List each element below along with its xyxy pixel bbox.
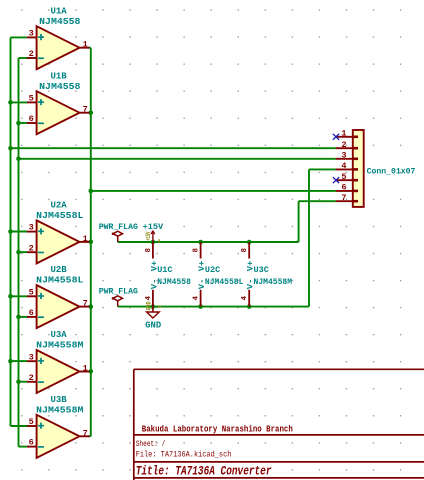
wire U3A pin3 stub bbox=[11, 360, 28, 362]
junction V1/U2A.3 bbox=[8, 229, 13, 234]
power symbol +15V bbox=[145, 231, 155, 242]
pin name tick near GND bbox=[159, 305, 161, 307]
svg-text:7: 7 bbox=[83, 299, 88, 309]
power flag PWR_FLAG on +15V rail bbox=[112, 231, 123, 242]
wire U2A pin2 stub bbox=[19, 251, 28, 253]
junction V3/U3A.1 bbox=[89, 369, 94, 374]
svg-text:4: 4 bbox=[341, 161, 346, 171]
op-amp power unit U2C bbox=[193, 242, 208, 307]
svg-text:6: 6 bbox=[341, 183, 346, 193]
svg-text:Conn_01x07: Conn_01x07 bbox=[367, 166, 416, 176]
svg-text:PWR_FLAG: PWR_FLAG bbox=[99, 222, 138, 232]
wire connector pin4 stub bbox=[309, 168, 336, 170]
wire U1B pin6 stub bbox=[19, 122, 28, 124]
junction V1/U2B.5 bbox=[8, 294, 13, 299]
svg-text:8: 8 bbox=[145, 248, 153, 252]
svg-text:2: 2 bbox=[29, 243, 34, 253]
wire U3B pin6 stub bbox=[19, 446, 28, 448]
op-amp U2B bbox=[27, 285, 89, 328]
connector pin 4 bbox=[336, 168, 353, 170]
op-amp U2A bbox=[27, 220, 89, 263]
wire U3A pin1 stub bbox=[89, 370, 91, 372]
svg-text:File: TA7136A.kicad_sch: File: TA7136A.kicad_sch bbox=[136, 451, 232, 460]
svg-text:NJM4558L: NJM4558L bbox=[36, 211, 83, 221]
svg-text:6: 6 bbox=[29, 308, 34, 318]
svg-text:U2C: U2C bbox=[205, 265, 220, 275]
junction +15V rail/U2C.8 bbox=[198, 240, 203, 245]
power symbol GND bbox=[146, 301, 160, 318]
svg-text:2: 2 bbox=[29, 373, 34, 383]
svg-text:7: 7 bbox=[341, 193, 346, 203]
svg-text:1: 1 bbox=[83, 40, 88, 50]
wire U1B pin5 stub bbox=[11, 101, 28, 103]
connector Conn_01x07 bbox=[353, 130, 364, 207]
svg-text:5: 5 bbox=[341, 172, 346, 182]
title block frame bbox=[134, 368, 424, 370]
svg-text:U3C: U3C bbox=[254, 265, 269, 275]
op-amp U3A bbox=[27, 350, 89, 393]
wire connector pin7 stub bbox=[299, 200, 336, 202]
connector pin 6 bbox=[336, 190, 353, 192]
connector pin 1 bbox=[336, 136, 353, 138]
wire U2B pin5 stub bbox=[11, 295, 28, 297]
svg-text:Sheet: /: Sheet: / bbox=[136, 440, 166, 449]
wire +15V rail bbox=[118, 241, 299, 243]
connector pin 5 bbox=[336, 179, 353, 181]
junction V2/H2 bbox=[16, 157, 21, 162]
op-amp U1B bbox=[27, 91, 89, 134]
wire H3 to connector pin6 bbox=[91, 190, 336, 192]
svg-text:U1A: U1A bbox=[51, 6, 68, 16]
svg-text:+15V: +15V bbox=[145, 232, 152, 241]
svg-text:PWR_FLAG: PWR_FLAG bbox=[99, 287, 138, 297]
svg-text:7: 7 bbox=[83, 105, 88, 115]
connector pin 3 bbox=[336, 158, 353, 160]
wire H2 to connector pin3 bbox=[19, 158, 336, 160]
wire H1 to connector pin2 bbox=[11, 147, 336, 149]
junction V3/U2B.7 bbox=[89, 304, 94, 309]
wire riser to connector pin7 bbox=[298, 201, 300, 242]
junction V2/U1B.6 bbox=[16, 121, 21, 126]
svg-text:U3A: U3A bbox=[51, 330, 68, 340]
wire V1 non-inverting bus x=10.5 bbox=[10, 37, 12, 426]
svg-text:Bakuda Laboratory Narashino Br: Bakuda Laboratory Narashino Branch bbox=[142, 424, 293, 434]
svg-text:NJM4558M: NJM4558M bbox=[36, 405, 83, 415]
svg-text:NJM4558: NJM4558 bbox=[39, 17, 80, 27]
svg-text:Title: TA7136A Converter: Title: TA7136A Converter bbox=[136, 465, 272, 479]
svg-text:4: 4 bbox=[145, 295, 153, 300]
wire U3B pin7 stub bbox=[89, 435, 91, 437]
no-connect X pin1 bbox=[333, 134, 339, 140]
junction V3/U2A.1 bbox=[89, 240, 94, 245]
connector pin 7 bbox=[336, 200, 353, 202]
wire U1A pin3 stub bbox=[11, 36, 28, 38]
op-amp U3B bbox=[27, 415, 89, 458]
wire V2 inverting bus x=18.5 bbox=[18, 58, 20, 447]
junction V1/U1B.5 bbox=[8, 100, 13, 105]
junction V2/U2A.2 bbox=[16, 250, 21, 255]
svg-text:1: 1 bbox=[83, 234, 88, 244]
wire GND rail bbox=[118, 306, 309, 308]
op-amp U1A bbox=[27, 26, 89, 69]
junction GND rail/U1C.4 bbox=[151, 304, 156, 309]
junction +15V rail/U1C.8 bbox=[151, 240, 156, 245]
svg-text:U2A: U2A bbox=[51, 201, 68, 211]
svg-text:+15V: +15V bbox=[143, 222, 164, 232]
wire U2A pin3 stub bbox=[11, 231, 28, 233]
svg-text:U3B: U3B bbox=[51, 395, 68, 405]
junction V1/H1 bbox=[8, 146, 13, 151]
junction V2/U2B.6 bbox=[16, 315, 21, 320]
power flag PWR_FLAG on GND rail bbox=[112, 296, 123, 307]
wire U2B pin7 stub bbox=[89, 306, 91, 308]
op-amp power unit U3C bbox=[241, 242, 256, 307]
svg-text:6: 6 bbox=[29, 114, 34, 124]
wire U1B pin7 stub bbox=[89, 112, 91, 114]
junction GND rail/U3C.4 bbox=[247, 304, 252, 309]
wire riser to connector pin4 bbox=[308, 169, 310, 306]
svg-text:1: 1 bbox=[83, 364, 88, 374]
no-connect X pin5 bbox=[333, 177, 339, 183]
svg-text:NJM4558M: NJM4558M bbox=[254, 277, 293, 287]
svg-text:4: 4 bbox=[193, 295, 201, 300]
svg-text:NJM4558L: NJM4558L bbox=[205, 277, 244, 287]
op-amp power unit U1C bbox=[145, 242, 160, 307]
svg-text:8: 8 bbox=[193, 248, 201, 252]
svg-text:3: 3 bbox=[29, 223, 34, 233]
svg-text:NJM4558L: NJM4558L bbox=[36, 276, 83, 286]
wire U2A pin1 stub bbox=[89, 241, 91, 243]
svg-text:4: 4 bbox=[241, 295, 249, 300]
svg-text:U1C: U1C bbox=[157, 265, 172, 275]
pin name tick near U1C pin8 bbox=[158, 239, 160, 243]
svg-text:U1B: U1B bbox=[51, 71, 68, 81]
svg-text:NJM4558: NJM4558 bbox=[157, 277, 191, 287]
svg-text:2: 2 bbox=[341, 140, 346, 150]
svg-text:NJM4558M: NJM4558M bbox=[36, 341, 83, 351]
wire U1A pin1 stub bbox=[89, 47, 91, 49]
wire U2B pin6 stub bbox=[19, 316, 28, 318]
svg-text:NJM4558: NJM4558 bbox=[39, 82, 80, 92]
junction V2/U3A.2 bbox=[16, 379, 21, 384]
svg-text:5: 5 bbox=[29, 417, 34, 427]
svg-text:3: 3 bbox=[341, 151, 346, 161]
junction V3/H3 bbox=[89, 189, 94, 194]
svg-text:5: 5 bbox=[29, 287, 34, 297]
svg-text:3: 3 bbox=[29, 352, 34, 362]
wire U3B pin5 stub bbox=[11, 425, 28, 427]
svg-text:7: 7 bbox=[83, 428, 88, 438]
svg-text:1: 1 bbox=[341, 129, 346, 139]
junction V3/U1B.7 bbox=[89, 110, 94, 115]
junction V1/U3A.3 bbox=[8, 359, 13, 364]
junction +15V rail/U3C.8 bbox=[247, 240, 252, 245]
wire U3A pin2 stub bbox=[19, 381, 28, 383]
svg-text:U2B: U2B bbox=[51, 265, 68, 275]
wire U1A pin2 stub bbox=[19, 57, 28, 59]
svg-text:8: 8 bbox=[241, 248, 249, 252]
svg-text:GND: GND bbox=[146, 301, 153, 310]
junction GND rail/U2C.4 bbox=[198, 304, 203, 309]
svg-text:GND: GND bbox=[145, 321, 161, 331]
svg-text:2: 2 bbox=[29, 49, 34, 59]
svg-text:6: 6 bbox=[29, 438, 34, 448]
svg-text:5: 5 bbox=[29, 94, 34, 104]
svg-text:3: 3 bbox=[29, 29, 34, 39]
connector pin 2 bbox=[336, 147, 353, 149]
wire V3 outputs bus x=90.8 bbox=[90, 48, 92, 437]
